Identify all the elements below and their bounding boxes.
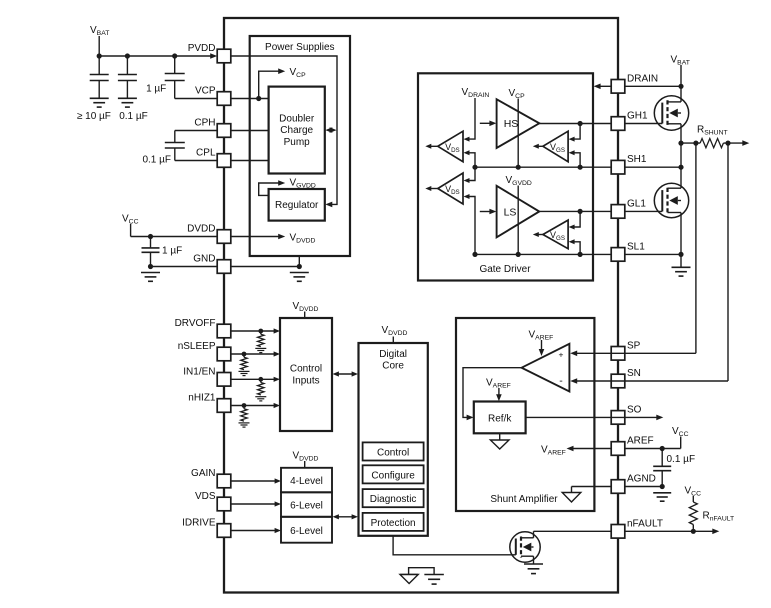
svg-text:Pump: Pump	[284, 137, 311, 148]
block Diagnostic	[363, 489, 424, 507]
resistor RSHUNT	[700, 139, 723, 148]
pin VCP	[217, 92, 231, 106]
svg-text:nFAULT: nFAULT	[627, 518, 663, 529]
wire Q2 source down	[680, 213, 682, 268]
pin label GND	[193, 254, 215, 265]
wire VAREF into Refk	[498, 388, 500, 396]
svg-text:nHIZ1: nHIZ1	[188, 393, 216, 404]
resistor pulldown IN1/EN	[258, 379, 264, 395]
value label 1uF (DVDD)	[162, 246, 182, 257]
Shunt Amplifier box	[456, 318, 594, 511]
arrow DRAIN into box	[594, 84, 601, 90]
pin DRAIN	[611, 80, 625, 94]
wire AREF internal	[572, 448, 612, 450]
wire CPH pin to flying cap	[175, 131, 217, 143]
svg-text:DRAIN: DRAIN	[627, 73, 658, 84]
capacitor 1uF (VCP)	[165, 56, 185, 99]
wire HS input stub	[480, 122, 491, 124]
capacitor >=10uF	[90, 56, 109, 98]
ground below Q3	[524, 564, 543, 574]
wire DVDD internal	[231, 236, 280, 238]
node junction DRAIN/VBAT	[678, 84, 683, 89]
arrow DRVOFF into Control Inputs	[274, 328, 280, 333]
pin label PVDD	[188, 43, 216, 54]
svg-text:Control: Control	[377, 448, 409, 459]
value label 0.1uF	[119, 111, 148, 122]
ground triangle below Refk	[490, 433, 509, 449]
wire VDVDD tick Control Inputs	[304, 312, 306, 319]
wire LS output to GL1	[539, 210, 611, 212]
wire shunt node to RSHUNT	[681, 142, 700, 144]
svg-text:4-Level: 4-Level	[290, 476, 323, 487]
net VGVDD label	[290, 177, 316, 189]
block Configure	[363, 465, 424, 483]
value label >=10uF	[77, 111, 111, 122]
arrow VDS into level block	[275, 501, 281, 506]
arrow into PVDD pin	[210, 53, 217, 59]
wire SH1 to VDS upper input	[464, 150, 476, 167]
svg-text:0.1 µF: 0.1 µF	[142, 155, 171, 166]
node junction nSLEEP pulldown	[242, 352, 247, 357]
svg-text:0.1 µF: 0.1 µF	[667, 454, 696, 465]
op-amp shunt amplifier	[522, 344, 570, 392]
net VCP label	[290, 67, 307, 79]
wire AREF external	[625, 448, 681, 450]
resistor pulldown nSLEEP	[241, 354, 247, 370]
node junction SL1/Q2 source	[678, 252, 683, 257]
wire AGND internal	[572, 487, 612, 493]
Shunt Amplifier title	[490, 494, 558, 505]
pin GAIN	[217, 474, 231, 488]
block Refk	[474, 402, 526, 434]
wire PVDD internal feed	[231, 56, 337, 204]
capacitor 0.1uF flying (CPH-CPL)	[165, 143, 185, 149]
ground triangle AGND	[562, 493, 581, 503]
op-amp minus sign	[559, 375, 563, 387]
net VDVDD label (levels)	[293, 451, 319, 463]
node junction AGND/cap	[660, 484, 665, 489]
pin AREF	[611, 442, 625, 456]
svg-text:0.1 µF: 0.1 µF	[119, 111, 148, 122]
arrow into LS	[489, 209, 496, 215]
wire SP sense vertical	[695, 143, 697, 353]
pin DRVOFF	[217, 324, 231, 338]
capacitor 1uF (DVDD)	[142, 237, 160, 267]
svg-text:Diagnostic: Diagnostic	[370, 494, 417, 505]
net VDVDD label (Control Inputs)	[293, 301, 319, 313]
node junction VBAT/C1	[97, 53, 102, 58]
resistor pulldown nHIZ1	[241, 406, 247, 422]
node junction VCP/SH1	[516, 165, 521, 170]
svg-text:PVDD: PVDD	[188, 43, 216, 54]
svg-text:+: +	[559, 349, 564, 359]
svg-text:Digital: Digital	[379, 349, 407, 360]
wire VBAT rail to PVDD	[99, 55, 212, 57]
pin label SL1	[627, 241, 645, 252]
ground pulldown nSLEEP	[239, 371, 250, 375]
pin label SP	[627, 340, 641, 351]
svg-text:VDS: VDS	[195, 491, 216, 502]
node junction GND internal	[297, 264, 302, 269]
svg-text:SN: SN	[627, 368, 641, 379]
wire VDRAIN vertical	[464, 98, 476, 142]
wire VCC stub nFAULT	[692, 496, 694, 502]
pin SL1	[611, 248, 625, 262]
wire Q1 source down	[680, 124, 682, 143]
svg-text:6-Level: 6-Level	[290, 526, 323, 537]
svg-text:AREF: AREF	[627, 436, 654, 447]
wire SH1 to VGS upper input	[569, 150, 581, 167]
arrow nHIZ1 into Control Inputs	[274, 403, 280, 408]
node junction nFAULT/pullup	[691, 529, 696, 534]
wire VAREF into op-amp	[541, 340, 543, 351]
wire IDRIVE to level block	[231, 530, 276, 532]
wire VGS upper output	[533, 144, 543, 149]
node junction IN1/EN pulldown	[258, 377, 263, 382]
arrow GAIN into level block	[275, 478, 281, 483]
wire Digital Core to Q3 gate	[393, 536, 516, 555]
label RSHUNT	[697, 125, 728, 137]
svg-text:VCP: VCP	[195, 86, 216, 97]
arrow AREF internal out	[567, 446, 574, 452]
pin CPL	[217, 154, 231, 168]
svg-text:Shunt Amplifier: Shunt Amplifier	[490, 494, 558, 505]
value label 1uF (VCP)	[146, 84, 166, 95]
svg-text:Control: Control	[290, 364, 322, 375]
arrow IN1/EN into Control Inputs	[274, 377, 280, 382]
pin label DRVOFF	[175, 318, 216, 329]
arrow nSLEEP into Control Inputs	[274, 351, 280, 356]
pin SH1	[611, 160, 625, 174]
ground internal GND	[290, 273, 309, 282]
net VCC label (DVDD)	[122, 214, 139, 226]
svg-text:IN1/EN: IN1/EN	[183, 366, 215, 377]
pin label IN1/EN	[183, 366, 215, 377]
pin label nHIZ1	[188, 393, 216, 404]
pin label VCP	[195, 86, 216, 97]
pin CPH	[217, 124, 231, 138]
net VDRAIN label	[462, 87, 490, 99]
node junction DVDD/1uF	[148, 234, 153, 239]
node junction AREF/cap	[660, 446, 665, 451]
wire VDS upper output	[425, 144, 438, 149]
svg-text:IDRIVE: IDRIVE	[182, 518, 216, 529]
wire Q3 drain to nFAULT	[534, 531, 612, 538]
wire Q1-Q2 chain	[680, 143, 682, 188]
arrow into PVDD vertical	[330, 127, 337, 133]
arrow into HS	[489, 121, 496, 127]
svg-text:Regulator: Regulator	[275, 200, 319, 211]
node junction nHIZ1 pulldown	[242, 403, 247, 408]
ground pulldown IN1/EN	[255, 397, 266, 401]
node junction GL1/VGS	[578, 209, 583, 214]
pin label SO	[627, 404, 642, 415]
pin label VDS	[195, 491, 216, 502]
pin nSLEEP	[217, 347, 231, 361]
block 6-Level (VDS)	[281, 492, 332, 517]
arrow VAREF into op-amp	[539, 349, 545, 356]
arrow DVDD out	[278, 234, 285, 240]
ground below 0.1uF cap	[118, 98, 137, 107]
node junction GND/1uF	[148, 264, 153, 269]
wire CPH internal	[231, 130, 269, 132]
arrow VAREF into Refk	[496, 394, 502, 401]
block 6-Level (IDRIVE)	[281, 517, 332, 543]
Power Supplies title	[265, 42, 334, 53]
wire Q3 source down	[533, 556, 535, 564]
pin nHIZ1	[217, 399, 231, 413]
node junction VCP tap	[256, 96, 261, 101]
svg-text:CPH: CPH	[194, 118, 215, 129]
arrow SN into op-amp	[570, 378, 577, 384]
pin VDS	[217, 497, 231, 511]
arrow VCP out	[278, 68, 285, 74]
pin label DVDD	[187, 224, 215, 235]
svg-text:Configure: Configure	[371, 470, 415, 481]
pin IDRIVE	[217, 524, 231, 538]
net VCC label (AREF)	[672, 426, 689, 438]
wire SH1 external	[625, 166, 681, 168]
svg-text:AGND: AGND	[627, 474, 656, 485]
node junction SH1/chain	[678, 165, 683, 170]
block Digital Core	[359, 343, 428, 536]
pin label AGND	[627, 474, 656, 485]
svg-text:GND: GND	[193, 254, 215, 265]
node junction DRVOFF pulldown	[258, 329, 263, 334]
resistor pulldown DRVOFF	[258, 331, 264, 347]
svg-text:Charge: Charge	[280, 125, 313, 136]
pin PVDD	[217, 49, 231, 63]
wire SL1 to VGS lower input	[569, 239, 581, 254]
wire VDVDD tick Digital Core	[392, 337, 394, 344]
wire GL1 to Q2 gate	[625, 210, 663, 212]
pin AGND	[611, 480, 625, 494]
arrow nFAULT output	[712, 529, 719, 535]
wire SL1 internal	[475, 253, 611, 255]
op-amp plus sign	[559, 349, 564, 359]
wire SH1 to VDS lower input	[464, 167, 476, 183]
wire GH1 to Q1 gate	[625, 123, 663, 125]
wire SL1 to VDS lower input	[464, 194, 476, 254]
net VCC label (nFAULT)	[685, 486, 702, 498]
ground pulldown DRVOFF	[255, 348, 266, 352]
svg-text:nSLEEP: nSLEEP	[178, 341, 216, 352]
wire VDS to level block	[231, 503, 276, 505]
node junction VGSL/SL1	[578, 252, 583, 257]
svg-text:SH1: SH1	[627, 154, 647, 165]
node junction C3	[172, 53, 177, 58]
svg-text:Protection: Protection	[371, 518, 416, 529]
wire nHIZ1 to Control Inputs	[231, 405, 275, 407]
net VAREF label (AREF pin)	[541, 445, 566, 457]
wire GL1 to VGS lower input	[569, 211, 581, 229]
wire op-amp output to Refk	[463, 368, 522, 418]
pin GH1	[611, 117, 625, 131]
wire DRAIN into Gate Driver	[598, 85, 612, 87]
pin DVDD	[217, 230, 231, 244]
pin label GH1	[627, 111, 648, 122]
svg-text:Ref/k: Ref/k	[488, 414, 512, 425]
comparator VDS lower	[438, 173, 463, 204]
wire DRAIN pin to VBAT node	[625, 85, 681, 87]
transistor Q3 nFAULT open-drain	[510, 532, 540, 562]
pin SP	[611, 347, 625, 361]
wire VBAT stub down	[98, 36, 100, 56]
bus Control Inputs - Digital Core	[333, 371, 359, 376]
wire VCP internal	[231, 98, 269, 100]
pin label nSLEEP	[178, 341, 216, 352]
svg-text:1 µF: 1 µF	[146, 84, 166, 95]
arrow into Regulator right	[325, 202, 332, 208]
arrow SP into op-amp	[570, 351, 577, 357]
block Control	[363, 442, 424, 460]
net VBAT label (right)	[671, 55, 690, 67]
ground below >=10uF cap	[90, 98, 109, 107]
pin SO	[611, 411, 625, 425]
svg-text:SO: SO	[627, 404, 642, 415]
block Protection	[363, 513, 424, 531]
svg-text:Gate Driver: Gate Driver	[479, 264, 531, 275]
node junction VGVDD/SL1	[516, 252, 521, 257]
pin label SH1	[627, 154, 647, 165]
pin label DRAIN	[627, 73, 658, 84]
wire DRVOFF to Control Inputs	[231, 330, 275, 332]
capacitor 0.1uF (VBAT)	[118, 56, 137, 98]
ground below AREF cap	[653, 493, 671, 501]
arrow GVDD out	[278, 180, 285, 186]
pin label CPL	[196, 148, 216, 159]
node junction SP tap	[693, 141, 698, 146]
op-amp HS gate driver	[497, 99, 540, 148]
node junction Q1 source/shunt	[678, 141, 683, 146]
wire nFAULT external	[625, 530, 714, 532]
Power Supplies box	[250, 36, 350, 256]
wire VDVDD tick levels	[304, 461, 306, 468]
arrow IDRIVE into level block	[275, 528, 281, 533]
Gate Driver box	[418, 73, 593, 280]
svg-text:DRVOFF: DRVOFF	[175, 318, 216, 329]
wire VGS lower output	[533, 232, 543, 237]
pin label IDRIVE	[182, 518, 216, 529]
net VBAT label (top-left)	[90, 25, 109, 37]
svg-text:LS: LS	[504, 206, 517, 218]
arrow into Refk	[467, 415, 474, 421]
value label 0.1uF AREF	[667, 454, 696, 465]
svg-text:Power Supplies: Power Supplies	[265, 42, 334, 53]
wire nSLEEP to Control Inputs	[231, 353, 275, 355]
wire IN1/EN to Control Inputs	[231, 378, 275, 380]
wire VGVDD vertical through LS	[517, 186, 519, 255]
wire 1uF cap to VCP pin	[175, 98, 218, 100]
block Regulator	[269, 189, 325, 221]
block Control Inputs	[280, 318, 332, 431]
wire VDS lower output	[425, 186, 438, 191]
pin label SN	[627, 368, 641, 379]
wire VCC to DVDD pin	[131, 224, 218, 237]
net VAREF label (Refk)	[486, 378, 511, 390]
IC device outline	[224, 18, 618, 593]
net VAREF label (op-amp)	[529, 330, 554, 342]
wire Power Supplies box to GND	[298, 256, 300, 267]
svg-text:SP: SP	[627, 340, 641, 351]
wire VCC stub AREF	[680, 437, 682, 449]
Gate Driver title	[479, 264, 531, 275]
svg-text:≥ 10 µF: ≥ 10 µF	[77, 111, 111, 122]
wire GAIN to level block	[231, 480, 276, 482]
wire HS output to GH1	[539, 123, 611, 125]
svg-text:Inputs: Inputs	[292, 376, 319, 387]
transistor Q1 high-side NMOS	[654, 96, 688, 130]
wire CPL internal	[231, 160, 269, 162]
pin SN	[611, 374, 625, 388]
svg-text:GH1: GH1	[627, 111, 648, 122]
svg-text:1 µF: 1 µF	[162, 246, 182, 257]
pin GL1	[611, 205, 625, 219]
svg-text:CPL: CPL	[196, 148, 216, 159]
arrow into Doubler right	[325, 127, 332, 133]
node junction GH1/VGS	[578, 121, 583, 126]
wire flying cap to CPL pin	[175, 148, 217, 161]
comparator VGS lower	[543, 220, 568, 249]
ground triangle (chip)	[400, 575, 418, 584]
wire GH1 to VGS upper input	[569, 124, 581, 142]
svg-text:-: -	[559, 375, 563, 387]
wire VCP tap up	[259, 71, 280, 98]
pin nFAULT	[611, 525, 625, 539]
net VDVDD label (power)	[290, 233, 316, 245]
wire SN to op-amp minus	[576, 380, 729, 382]
pin label GAIN	[191, 468, 215, 479]
net VGVDD label (LS)	[506, 175, 532, 187]
resistor RnFAULT	[689, 502, 697, 525]
svg-text:DVDD: DVDD	[187, 224, 215, 235]
wire SO output	[526, 416, 658, 418]
wire RnFAULT to nFAULT line	[692, 525, 694, 532]
op-amp LS gate driver	[497, 186, 540, 238]
svg-text:6-Level: 6-Level	[290, 501, 323, 512]
wire LS input stub	[480, 211, 491, 213]
ground below DVDD 1uF cap	[141, 273, 160, 282]
arrow SO output	[656, 415, 663, 421]
wire SH1 internal	[475, 166, 611, 168]
label RnFAULT	[703, 511, 735, 523]
node junction C2	[125, 53, 130, 58]
net VCP label (HS)	[509, 88, 526, 100]
wire SL1 external	[625, 253, 681, 255]
pin label AREF	[627, 436, 654, 447]
comparator VGS upper	[543, 131, 568, 162]
node junction VDRAIN/SH1	[472, 165, 477, 170]
pin label CPH	[194, 118, 215, 129]
svg-text:HS: HS	[504, 118, 519, 130]
bus levels - Digital Core	[333, 514, 359, 519]
pin label nFAULT	[627, 518, 663, 529]
wire SP to op-amp plus	[576, 352, 696, 354]
wire GND internal	[231, 266, 299, 268]
node junction chain/SL1	[472, 252, 477, 257]
svg-text:GL1: GL1	[627, 198, 646, 209]
block Doubler Charge Pump	[269, 87, 325, 174]
value label 0.1uF flying	[142, 155, 171, 166]
pin GND	[217, 260, 231, 274]
wire VBAT to Q1 drain	[680, 65, 682, 102]
svg-text:Doubler: Doubler	[279, 113, 315, 124]
pin label GL1	[627, 198, 646, 209]
svg-text:GAIN: GAIN	[191, 468, 215, 479]
node junction VGSU/SH1	[578, 165, 583, 170]
svg-text:Core: Core	[382, 361, 404, 372]
capacitor 0.1uF (AREF)	[653, 449, 671, 487]
